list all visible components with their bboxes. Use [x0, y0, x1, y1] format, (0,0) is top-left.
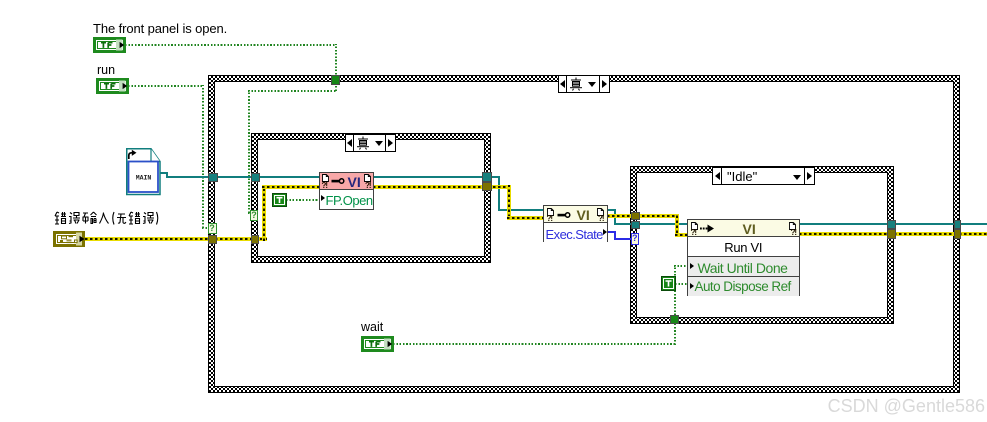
tunnel: teal idle left: [631, 221, 640, 230]
inner case structure 真: [251, 133, 491, 263]
wire: error into invoke node: [675, 233, 687, 237]
wire: fp.open boolean leftward: [248, 90, 336, 92]
wire: error out of FP node: [373, 185, 511, 189]
wire: wait boolean vertical through idle bottom tunnel: [674, 265, 676, 345]
selector ?: idle case (blue): [631, 233, 640, 245]
watermark: [828, 396, 985, 417]
selector ?: outer case: [208, 223, 217, 234]
输: [83, 213, 89, 224]
tunnel: teal outer right: [954, 220, 962, 230]
tunnel: green top border (fp.open): [331, 75, 341, 85]
tunnel: olive idle right: [887, 229, 896, 239]
wire: run boolean into outer ?: [202, 227, 210, 229]
error input cluster terminal: [53, 231, 85, 252]
label: The front panel is open.: [93, 21, 227, 36]
svg-text:MAIN: MAIN: [136, 175, 152, 182]
无: [117, 214, 126, 223]
selector label: Idle case: [712, 167, 815, 185]
wire: teal out of invoke node to right edge: [799, 223, 987, 225]
wire: error cluster from terminal: [85, 237, 267, 241]
wire: run boolean vertical: [202, 85, 204, 228]
wire: error out of invoke node to right edge: [799, 232, 987, 236]
tunnel: teal inner left: [251, 173, 260, 183]
wire: teal into invoke node through idle tunnel: [614, 223, 687, 225]
TF terminal: run: [96, 78, 129, 99]
Exec.State property node: [543, 205, 608, 242]
(: [113, 212, 114, 225]
outer case structure (while 真 case): [208, 75, 960, 393]
wire: run boolean horizontal: [128, 85, 203, 87]
TF terminal: front panel open: [93, 37, 126, 58]
FP.Open property node: [319, 172, 374, 211]
tunnel: olive outer left: [208, 235, 217, 244]
wire: T1 constant to FP.Open input: [286, 199, 319, 201]
label: run: [97, 63, 115, 77]
T constant 1 (true): [272, 193, 287, 212]
入: [100, 213, 109, 224]
T constant 2 (true): [661, 276, 676, 296]
Run VI invoke node: [687, 219, 801, 296]
tunnel: teal idle right: [887, 220, 896, 230]
错: [55, 212, 59, 224]
wire: teal into Exec node: [498, 209, 544, 211]
selector label: outer case 真: [558, 75, 610, 93]
tunnel: olive inner left: [251, 235, 260, 244]
tunnel: olive inner right: [482, 182, 492, 191]
MAIN static VI reference icon: [126, 148, 161, 201]
tunnel: olive outer right: [954, 229, 962, 239]
wire: error down jog: [507, 185, 511, 217]
wire: error vertical up inside inner case: [262, 185, 266, 241]
wire: error into FP.Open node: [262, 185, 320, 189]
wire: error into Exec node: [507, 216, 543, 220]
label: error input (chinese): [54, 211, 159, 231]
wire: teal out of Exec node: [607, 209, 616, 211]
TF terminal: wait: [361, 336, 394, 357]
wire: teal out of FP node to inner right border: [373, 176, 499, 178]
wire: fp.open boolean into inner ?: [248, 212, 252, 214]
Idle case structure: [630, 166, 894, 324]
selector label: inner case 真: [345, 134, 396, 152]
误: [69, 213, 72, 224]
误: [143, 213, 146, 224]
tunnel: teal inner right: [482, 172, 492, 182]
wire: teal vi ref into inner structure to FP.Open node: [166, 176, 320, 178]
wire: error out of Exec through idle tunnel: [607, 214, 677, 218]
wire: wait boolean into invoke node Wait Until Done: [674, 265, 687, 267]
wire: wait boolean horizontal: [393, 343, 676, 345]
tunnel: teal outer left: [208, 173, 218, 183]
wire: fp.open boolean vertical down through tunnel: [335, 44, 337, 91]
wire: teal vi ref stub from MAIN icon: [160, 172, 167, 174]
wire: fp.open boolean down to inner selector: [248, 90, 250, 213]
wire: T2 constant to Auto Dispose Ref: [675, 283, 687, 285]
tunnel: olive idle left: [631, 212, 640, 221]
tunnel: green idle bottom: [670, 315, 680, 325]
wire: teal down jog: [498, 176, 500, 210]
selector ?: inner case: [250, 210, 258, 221]
wire: The front panel is open boolean, horizontal from TF1: [125, 44, 336, 46]
错: [129, 212, 133, 224]
label: wait: [361, 320, 383, 334]
wire: blue exec.state out: [607, 231, 616, 233]
): [157, 212, 158, 225]
